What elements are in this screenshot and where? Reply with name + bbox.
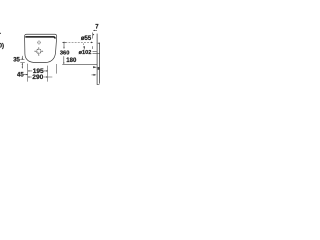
svg-text:360: 360 xyxy=(60,51,70,57)
svg-text:180: 180 xyxy=(66,58,77,64)
wall dot xyxy=(93,34,94,35)
long horizontal line xyxy=(62,63,97,65)
fixing arrow upper xyxy=(93,66,97,68)
bidet plan view outline xyxy=(25,34,57,62)
wall inner line xyxy=(98,43,100,84)
drain tick ends xyxy=(33,50,36,53)
extension line x=27.7 xyxy=(27,64,29,82)
fixing arrow lower xyxy=(92,74,95,76)
drain symbol cross ticks xyxy=(40,50,43,52)
supply pipe vertical axis dashed xyxy=(83,43,85,49)
stub beyond wall upper xyxy=(98,42,100,44)
tap hole diamond xyxy=(37,41,41,45)
svg-text:ø102: ø102 xyxy=(79,50,92,56)
extension line x=56.6 xyxy=(56,64,58,74)
dim 360 upper tick xyxy=(64,41,66,43)
dim 35 arrow lower / 45 vertical shaft xyxy=(21,63,23,69)
dim 360 lower arrow xyxy=(63,56,65,64)
supply centerline dashed with arrows xyxy=(62,41,93,43)
svg-text:290: 290 xyxy=(32,74,43,81)
svg-text:35: 35 xyxy=(13,57,20,63)
rim back edge bold line xyxy=(25,37,55,39)
dim 45 arrow xyxy=(24,74,28,76)
dim 35 extension line upper xyxy=(20,59,24,61)
arrow under 7 xyxy=(93,29,97,31)
dia 102 up arrow xyxy=(83,46,85,49)
dim 35 extension line lower xyxy=(20,62,25,64)
drain symbol circle arcs xyxy=(37,49,41,53)
pipe bracket verticals xyxy=(97,84,99,86)
tick right of dia102 xyxy=(91,46,93,49)
dim 290 line xyxy=(28,76,53,78)
dim 195 line xyxy=(28,70,48,72)
svg-text:45: 45 xyxy=(17,72,24,78)
waste centerline through wall xyxy=(93,50,97,52)
dim 35 arrow upper xyxy=(21,56,23,60)
dim 195 label xyxy=(32,68,44,74)
left edge clipped dash xyxy=(0,33,1,34)
behind wall blob xyxy=(98,67,100,70)
svg-text:0): 0) xyxy=(0,44,4,50)
dim 290 label xyxy=(32,74,44,80)
tap hole center dot xyxy=(38,41,41,44)
wall line xyxy=(96,34,98,85)
svg-text:ø55: ø55 xyxy=(81,36,92,42)
tick right of dia55 xyxy=(92,33,94,39)
extension line x=47.7 xyxy=(47,66,49,82)
